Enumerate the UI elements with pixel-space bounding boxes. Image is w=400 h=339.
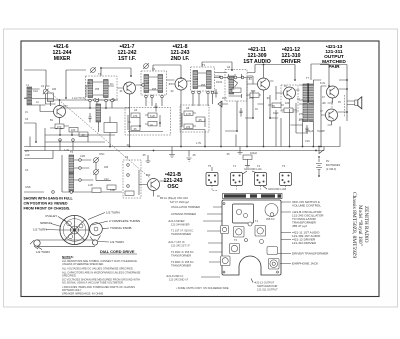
svg-text:2ND I.F.: 2ND I.F. <box>171 56 190 62</box>
svg-text:100μF: 100μF <box>250 152 258 155</box>
svg-text:8.4V: 8.4V <box>320 82 325 85</box>
svg-text:CW POSITION AS VIEWED: CW POSITION AS VIEWED <box>24 201 68 205</box>
svg-text:.9V: .9V <box>266 97 270 100</box>
svg-text:VOLUME CONTROL: VOLUME CONTROL <box>292 204 321 208</box>
svg-text:4.7K: 4.7K <box>186 113 191 116</box>
svg-text:W5: W5 <box>25 150 29 153</box>
svg-text:•421-13 OUTPUT: •421-13 OUTPUT <box>254 281 275 285</box>
svg-text:FROM FRONT OF CHASSIS.: FROM FRONT OF CHASSIS. <box>24 206 71 210</box>
svg-text:BK AL (50μμf) OSC ADJ: BK AL (50μμf) OSC ADJ <box>160 196 189 200</box>
svg-text:1/2 TURN: 1/2 TURN <box>36 250 50 254</box>
svg-text:¼W: ¼W <box>25 154 30 157</box>
svg-text:5μF: 5μF <box>251 90 256 93</box>
svg-text:2V: 2V <box>124 83 127 86</box>
svg-text:.02: .02 <box>170 90 174 93</box>
svg-text:455 KC: 455 KC <box>266 217 275 221</box>
svg-text:39K: 39K <box>146 174 151 177</box>
svg-text:C12: C12 <box>104 178 109 181</box>
svg-text:TRANSFORMER: TRANSFORMER <box>171 264 191 268</box>
svg-text:10K: 10K <box>230 88 235 91</box>
svg-text:455: 455 <box>152 88 157 91</box>
svg-text:KC: KC <box>110 83 114 86</box>
svg-text:.05: .05 <box>81 134 85 137</box>
svg-text:2 COMPLETE TURNS: 2 COMPLETE TURNS <box>109 219 140 223</box>
svg-text:DRIVER TRANSFORMER: DRIVER TRANSFORMER <box>292 252 329 256</box>
svg-text:OSC: OSC <box>99 153 105 156</box>
svg-text:455: 455 <box>95 88 100 91</box>
svg-text:47K: 47K <box>249 97 254 100</box>
svg-text:TRANSFORMER: TRANSFORMER <box>171 232 191 236</box>
svg-text:270: 270 <box>186 126 191 129</box>
svg-text:64? 47 1520 μμf: 64? 47 1520 μμf <box>170 200 189 204</box>
svg-text:.05: .05 <box>133 128 137 131</box>
svg-text:TUNING KNOB: TUNING KNOB <box>110 226 132 230</box>
svg-text:10K: 10K <box>71 129 76 132</box>
svg-text:47K: 47K <box>133 115 138 118</box>
svg-text:TRANSFORMER: TRANSFORMER <box>171 254 191 258</box>
svg-text:1/2 TURN: 1/2 TURN <box>110 240 124 244</box>
svg-text:NO SIGNAL USING A VACUUM TUBE: NO SIGNAL USING A VACUUM TUBE VOLTMETER. <box>62 281 124 285</box>
svg-text:Model “Royal 180”: Model “Royal 180” <box>357 205 364 247</box>
svg-text:1K: 1K <box>255 108 258 111</box>
svg-text:SWITCHED PAIR: SWITCHED PAIR <box>257 284 278 288</box>
svg-text:.05: .05 <box>192 154 196 157</box>
svg-text:1/2 TURN: 1/2 TURN <box>106 211 120 215</box>
svg-text:1ST AUDIO: 1ST AUDIO <box>243 59 270 65</box>
svg-text:.8V: .8V <box>168 83 172 86</box>
svg-text:PAIR: PAIR <box>328 64 340 70</box>
svg-text:6.8K: 6.8K <box>110 189 115 192</box>
svg-text:(2 UM-3): (2 UM-3) <box>326 167 336 171</box>
svg-text:T3 3RD I.F. 455 KC.: T3 3RD I.F. 455 KC. <box>171 260 194 264</box>
svg-text:8.2K: 8.2K <box>150 115 155 118</box>
svg-text:VOL: VOL <box>228 78 234 81</box>
svg-text:A5: A5 <box>186 106 190 110</box>
svg-text:• SOME UNITS CONT. ON SOLDERED: • SOME UNITS CONT. ON SOLDERED SIDE <box>176 286 229 290</box>
svg-text:8V: 8V <box>272 105 275 108</box>
svg-text:BATTERIES: BATTERIES <box>326 163 340 167</box>
svg-text:½AMP: ½AMP <box>317 129 325 133</box>
svg-text:SPRING: SPRING <box>40 221 52 225</box>
svg-text:•421-6 MIXER: •421-6 MIXER <box>168 219 185 223</box>
svg-text:121-244 MIXER: 121-244 MIXER <box>171 223 190 227</box>
svg-text:.05: .05 <box>198 119 202 122</box>
svg-text:1N34: 1N34 <box>216 81 223 84</box>
svg-text:.8V: .8V <box>248 78 252 81</box>
svg-text:OSCILLATOR TRIMMER: OSCILLATOR TRIMMER <box>171 205 200 209</box>
svg-text:•421-8 2ND I.F.: •421-8 2ND I.F. <box>166 274 184 278</box>
svg-text:MIXER: MIXER <box>54 56 71 62</box>
svg-text:EARPHONE JACK: EARPHONE JACK <box>292 262 319 266</box>
svg-text:1K: 1K <box>150 124 153 127</box>
svg-text:121-243 2ND I.F.: 121-243 2ND I.F. <box>169 278 189 282</box>
svg-text:C1A: C1A <box>33 90 38 93</box>
svg-text:1.4V: 1.4V <box>64 149 69 152</box>
svg-text:DRIVER: DRIVER <box>281 59 301 65</box>
svg-text:OSC: OSC <box>167 184 178 190</box>
svg-text:1V: 1V <box>25 111 28 114</box>
svg-text:PULLEY: PULLEY <box>46 214 58 218</box>
svg-text:47K: 47K <box>57 126 62 129</box>
svg-text:T2 2ND I.F. 455 KC.: T2 2ND I.F. 455 KC. <box>171 250 194 254</box>
svg-text:1.3V: 1.3V <box>196 142 201 145</box>
svg-text:121-242 1ST I.F.: 121-242 1ST I.F. <box>171 244 190 248</box>
svg-text:C15: C15 <box>305 140 310 143</box>
svg-text:PATTERN ONLY.: PATTERN ONLY. <box>62 288 82 292</box>
svg-text:ANTENNA TRIMMER: ANTENNA TRIMMER <box>171 212 196 216</box>
svg-text:.01: .01 <box>126 144 130 147</box>
svg-text:10μF: 10μF <box>273 112 279 115</box>
svg-text:A2: A2 <box>134 108 138 112</box>
svg-text:100: 100 <box>285 102 290 105</box>
svg-text:A4: A4 <box>227 65 231 69</box>
svg-text:455: 455 <box>201 84 206 87</box>
svg-text:SHOWN WITH GANG IN FULL: SHOWN WITH GANG IN FULL <box>24 197 74 201</box>
svg-text:A3: A3 <box>125 155 129 159</box>
svg-text:180: 180 <box>104 166 109 169</box>
svg-text:121-311 OUTPUT: 121-311 OUTPUT <box>257 288 278 292</box>
svg-text:GROUND LUG: GROUND LUG <box>268 187 286 191</box>
svg-text:NOTES:: NOTES: <box>62 255 74 259</box>
svg-text:270: 270 <box>299 113 304 116</box>
svg-text:1/2 TURN: 1/2 TURN <box>33 228 47 232</box>
svg-text:1 1/2 TO 3V: 1 1/2 TO 3V <box>72 97 86 100</box>
svg-text:DIAL CORD DRIVE: DIAL CORD DRIVE <box>100 249 135 254</box>
svg-text:.05: .05 <box>142 154 146 157</box>
svg-text:SPECIFIED.: SPECIFIED. <box>62 274 77 278</box>
svg-text:•421-7 1ST I.F.: •421-7 1ST I.F. <box>168 240 185 244</box>
svg-text:9V: 9V <box>326 159 329 163</box>
svg-text:UNLESS OTHERWISE SPECIFIED.: UNLESS OTHERWISE SPECIFIED. <box>62 262 104 266</box>
svg-text:T1 1ST I.F. 915 KC.: T1 1ST I.F. 915 KC. <box>171 229 194 233</box>
svg-text:4V: 4V <box>284 85 287 88</box>
svg-text:.05: .05 <box>226 153 230 156</box>
svg-text:180: 180 <box>52 88 57 91</box>
svg-text:9V: 9V <box>338 101 341 104</box>
svg-text:2.2K: 2.2K <box>88 184 93 187</box>
svg-text:Chassis 8MT50Z8, 8MT59Z9: Chassis 8MT50Z8, 8MT59Z9 <box>351 192 357 258</box>
svg-text:2N?: 2N? <box>63 105 68 108</box>
svg-text:121-310 DRIVER: 121-310 DRIVER <box>292 241 317 245</box>
svg-text:SPEAKER IMPEDANCE: 40 OHMS: SPEAKER IMPEDANCE: 40 OHMS <box>62 292 103 296</box>
svg-text:.01: .01 <box>119 90 123 93</box>
svg-text:GND: GND <box>25 186 31 189</box>
svg-text:1ST I.F.: 1ST I.F. <box>118 56 136 62</box>
svg-text:C1B: C1B <box>80 155 85 158</box>
svg-text:ALL VOLTAGES ARE DC VALUES OTH: ALL VOLTAGES ARE DC VALUES OTHERWISE SPE… <box>62 267 134 271</box>
svg-text:.2V: .2V <box>298 119 302 122</box>
svg-text:AVC: AVC <box>222 97 227 100</box>
svg-text:•96: •96 <box>322 102 326 105</box>
svg-text:455 47 μμf: 455 47 μμf <box>292 224 307 228</box>
